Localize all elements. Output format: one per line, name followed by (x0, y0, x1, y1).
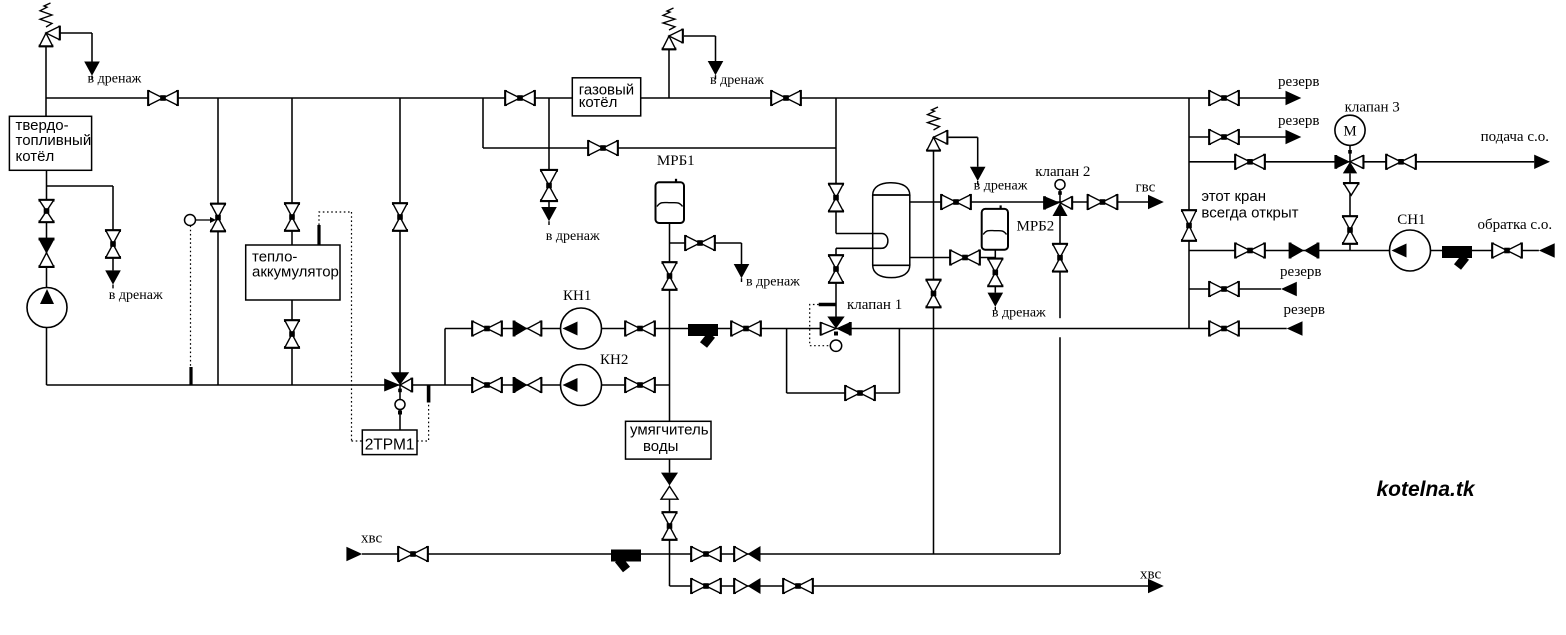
svg-text:kotelna.tk: kotelna.tk (1377, 478, 1476, 501)
svg-text:обратка с.о.: обратка с.о. (1478, 217, 1553, 233)
svg-text:в дренаж: в дренаж (109, 288, 163, 303)
svg-text:КН2: КН2 (600, 352, 628, 368)
svg-text:клапан 2: клапан 2 (1035, 164, 1090, 180)
svg-text:МРБ2: МРБ2 (1017, 219, 1055, 235)
svg-text:в дренаж: в дренаж (992, 306, 1046, 321)
svg-text:воды: воды (643, 438, 678, 455)
svg-text:клапан 3: клапан 3 (1345, 99, 1400, 115)
svg-text:в дренаж: в дренаж (546, 229, 600, 244)
svg-text:котёл: котёл (16, 148, 55, 165)
svg-text:гвс: гвс (1136, 180, 1156, 196)
svg-text:клапан 1: клапан 1 (847, 297, 902, 313)
svg-text:в дренаж: в дренаж (974, 178, 1028, 193)
svg-text:всегда открыт: всегда открыт (1201, 205, 1298, 222)
svg-text:этот кран: этот кран (1201, 188, 1266, 205)
svg-text:резерв: резерв (1278, 74, 1320, 90)
svg-text:хвс: хвс (1140, 567, 1161, 583)
svg-text:в дренаж: в дренаж (710, 73, 764, 88)
svg-text:подача с.о.: подача с.о. (1481, 129, 1549, 145)
svg-text:М: М (1343, 124, 1356, 140)
svg-text:2ТРМ1: 2ТРМ1 (365, 436, 415, 453)
svg-text:резерв: резерв (1284, 302, 1326, 318)
svg-text:КН1: КН1 (563, 288, 591, 304)
svg-text:умягчитель: умягчитель (630, 421, 709, 438)
svg-text:МРБ1: МРБ1 (657, 153, 695, 169)
svg-text:резерв: резерв (1278, 113, 1320, 129)
svg-text:в дренаж: в дренаж (88, 72, 142, 87)
svg-text:аккумулятор: аккумулятор (252, 263, 339, 280)
svg-text:СН1: СН1 (1397, 212, 1425, 228)
svg-text:котёл: котёл (579, 94, 618, 111)
svg-text:резерв: резерв (1280, 264, 1322, 280)
svg-text:топливный: топливный (16, 132, 92, 149)
svg-text:в дренаж: в дренаж (746, 274, 800, 289)
svg-text:хвс: хвс (361, 531, 382, 547)
